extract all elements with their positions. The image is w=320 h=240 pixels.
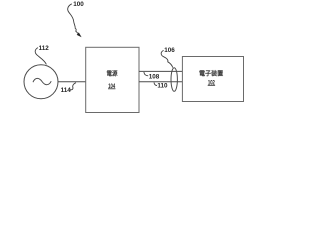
wire 108 (top conductor between boxes) — [139, 70, 182, 72]
svg-text:100: 100 — [73, 1, 84, 8]
node 108 label — [144, 72, 148, 76]
wire 110 (bottom conductor between boxes) — [139, 81, 182, 83]
svg-text:106: 106 — [164, 47, 175, 54]
electronic device box 102 — [182, 57, 243, 102]
svg-text:108: 108 — [149, 74, 160, 81]
svg-text:110: 110 — [157, 83, 168, 90]
leader wire for 112 — [35, 48, 46, 65]
text 電子装置 (electronic device) — [199, 70, 222, 76]
node 110 label — [154, 82, 157, 85]
svg-text:114: 114 — [61, 87, 72, 94]
leader wire for 114 — [70, 83, 76, 90]
wire from AC source to power supply box — [58, 81, 86, 83]
wire leader arrow for 100 — [68, 4, 78, 34]
power supply box 104 — [86, 47, 139, 112]
connector ellipse 106 — [171, 68, 177, 92]
sine wave inside AC source — [33, 78, 51, 84]
text 電源 (power supply) — [107, 70, 117, 76]
AC source circle (power source symbol) — [24, 65, 58, 99]
svg-text:112: 112 — [39, 45, 50, 52]
